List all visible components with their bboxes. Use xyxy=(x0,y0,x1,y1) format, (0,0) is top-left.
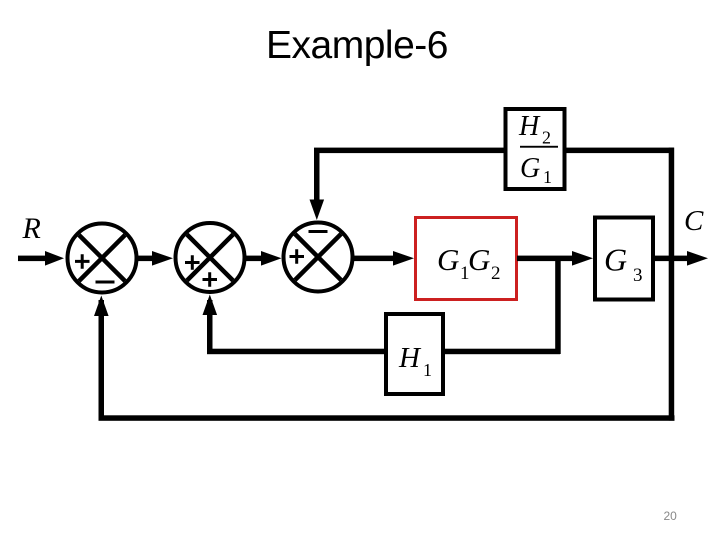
summing junction S1 xyxy=(68,224,137,293)
wire H1 left segment xyxy=(207,349,386,355)
svg-text:G: G xyxy=(437,242,459,277)
wire bottom outer loop xyxy=(99,415,675,421)
svg-text:3: 3 xyxy=(633,265,643,286)
wire up into S1 with arrowhead xyxy=(94,296,109,419)
title xyxy=(0,24,717,68)
wire takeoff after G1G2 down to H1 level xyxy=(555,258,561,354)
svg-text:2: 2 xyxy=(491,263,501,284)
wire S3 to block G1G2 xyxy=(353,251,414,266)
block H2/G1 (fraction) xyxy=(506,109,565,189)
wire top feedback horizontal xyxy=(314,148,674,154)
svg-text:2: 2 xyxy=(542,128,551,148)
svg-text:G: G xyxy=(468,242,490,277)
wire H1 right segment xyxy=(444,349,560,355)
summing junction S2 xyxy=(176,223,245,292)
wire S2 to S3 xyxy=(245,251,282,266)
wire up into S2 with arrowhead xyxy=(203,295,218,355)
svg-text:1: 1 xyxy=(543,167,552,187)
svg-text:C: C xyxy=(684,205,704,237)
svg-text:H: H xyxy=(398,342,422,374)
block G1G2 (red) xyxy=(416,218,517,300)
wire: input R line xyxy=(18,251,64,266)
svg-text:G: G xyxy=(604,242,627,278)
block G3 xyxy=(595,218,653,300)
wire G3 to output C xyxy=(653,251,708,266)
wire down into S3 with arrowhead xyxy=(310,150,325,220)
block H1 xyxy=(386,314,443,394)
wire S1 to S2 xyxy=(137,251,173,266)
summing junction S3 xyxy=(284,223,353,292)
wire G1G2 to G3 with takeoff node xyxy=(517,251,593,266)
wire right vertical takeoff (to H2/G1 and outer loop) xyxy=(669,148,675,421)
svg-text:1: 1 xyxy=(423,360,432,380)
page number xyxy=(664,509,694,523)
svg-text:H: H xyxy=(518,111,541,142)
svg-text:R: R xyxy=(22,212,41,245)
svg-text:G: G xyxy=(520,153,540,184)
